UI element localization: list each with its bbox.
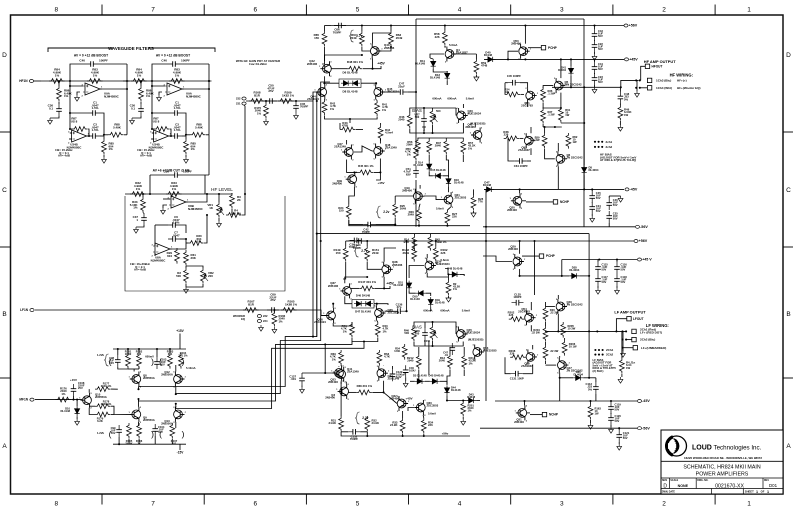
svg-text:226: 226: [452, 215, 457, 219]
capacitor C98: [117, 355, 119, 367]
svg-text:1%: 1%: [191, 147, 196, 151]
resistor R34h: [505, 92, 521, 97]
svg-text:LF AMP OUTPUT: LF AMP OUTPUT: [614, 309, 646, 314]
svg-text:D5 DL4148: D5 DL4148: [413, 374, 427, 378]
svg-text:50V: 50V: [623, 436, 628, 440]
svg-text:1: 1: [767, 490, 769, 494]
svg-text:(: (: [159, 357, 162, 367]
resistor R138: [356, 390, 372, 395]
svg-text:+56v: +56v: [442, 432, 449, 436]
resistor R56: [416, 138, 421, 154]
resistor R37: [541, 108, 546, 124]
terminal HFOUT: [641, 66, 645, 80]
svg-text:600mA: 600mA: [447, 97, 456, 101]
transistor Q55 driver: [525, 349, 538, 366]
wg2 wire R86: [140, 81, 142, 86]
svg-text:1: 1: [747, 501, 751, 508]
svg-text:50V: 50V: [615, 419, 620, 423]
svg-text:2SA1349: 2SA1349: [334, 145, 346, 149]
svg-text:DL4148: DL4148: [413, 163, 423, 167]
ground R166: [272, 327, 277, 333]
svg-text:10 3W: 10 3W: [568, 327, 576, 331]
transistor Q19: [413, 189, 426, 206]
+45V stub lf: [384, 286, 390, 288]
lf left vertical: [485, 189, 487, 401]
svg-text:2N5550A: 2N5550A: [143, 418, 155, 422]
svg-text:63V: 63V: [406, 172, 411, 176]
svg-text:DL4148: DL4148: [410, 297, 420, 301]
nc lf: [446, 298, 451, 302]
ground D10: [76, 416, 78, 419]
svg-text:2049: 2049: [408, 213, 415, 217]
svg-text:2040 1%: 2040 1%: [101, 384, 112, 388]
resistor R168: [249, 99, 265, 104]
resistor R207: [543, 345, 548, 361]
svg-text:2.7v: 2.7v: [361, 249, 367, 253]
svg-text:NCHP: NCHP: [560, 200, 569, 204]
wg1 ground opamp: [75, 95, 80, 101]
svg-text:100PF: 100PF: [513, 295, 522, 299]
hf-level input rail: [125, 193, 207, 195]
transistor Q8: [129, 372, 142, 389]
brace buffer top: [105, 354, 109, 366]
resistor R33h: [166, 192, 182, 197]
transistor Q35: [374, 306, 387, 323]
bias pot: [430, 109, 435, 125]
svg-text:2: 2: [662, 7, 666, 14]
wire diff tail: [325, 116, 378, 120]
resistor R142: [428, 235, 433, 251]
junction lf 2ch: [594, 349, 596, 351]
svg-text:500: 500: [436, 109, 441, 113]
svg-text:D4648: D4648: [467, 395, 475, 399]
svg-text:4.5m4: 4.5m4: [385, 131, 393, 135]
diode D48h: [450, 272, 460, 277]
svg-text:1%: 1%: [468, 409, 472, 413]
svg-text:DWN. DATE: DWN. DATE: [662, 491, 675, 494]
hf conn 2: [636, 80, 638, 87]
buffer top rail: [113, 348, 186, 350]
transistor Q9: [129, 407, 142, 424]
wire pots: [185, 266, 187, 268]
svg-text:NJM4580C: NJM4580C: [104, 94, 120, 98]
svg-text:700PF: 700PF: [350, 437, 359, 441]
resistor R27: [445, 210, 450, 226]
svg-text:D6 DL4148: D6 DL4148: [343, 71, 358, 75]
svg-text:1%: 1%: [55, 73, 60, 77]
diode D11: [431, 59, 436, 69]
resistor R176: [55, 397, 71, 402]
bus wire 1: [141, 92, 318, 387]
wg1 ground C36: [48, 118, 53, 124]
svg-text:-15V: -15V: [177, 451, 185, 455]
svg-text:HF1N: HF1N: [19, 79, 28, 83]
transistor Q12: [173, 372, 186, 389]
svg-text:1%: 1%: [332, 357, 337, 361]
caps C46 C25: [608, 198, 610, 210]
svg-text:(: (: [159, 429, 162, 439]
resistor R151: [365, 246, 370, 262]
capacitor C69: [267, 309, 279, 311]
diode DL4: [427, 162, 432, 172]
capacitor C104: [154, 424, 156, 436]
bus wire 2: [178, 82, 330, 394]
svg-text:+45V: +45V: [377, 62, 385, 66]
svg-text:5: 5: [356, 7, 360, 14]
resistor R202h: [509, 317, 525, 322]
svg-text:2N5406: 2N5406: [507, 208, 517, 212]
svg-text:1W: 1W: [626, 366, 631, 370]
svg-text:500: 500: [404, 331, 409, 335]
diode D55: [569, 273, 579, 278]
transistor Q48: [373, 144, 386, 161]
svg-text:R48 301 1%: R48 301 1%: [347, 60, 363, 64]
-56V rail LF: [480, 427, 637, 429]
svg-text:231: 231: [236, 102, 241, 106]
capacitor C134b: [350, 239, 362, 241]
svg-text:C131 100P: C131 100P: [510, 377, 524, 381]
op-amp U8A: [152, 243, 174, 258]
lf in terminal: [30, 309, 34, 312]
diode D16: [446, 176, 451, 186]
svg-text:5.49K: 5.49K: [113, 125, 122, 129]
ground hf zobel: [618, 125, 623, 131]
svg-text:US 8: US 8: [153, 119, 160, 123]
svg-text:D46 D4148: D46 D4148: [356, 294, 371, 298]
svg-text:222: 222: [263, 314, 268, 318]
svg-text:5.6mA: 5.6mA: [462, 309, 470, 313]
svg-text:1.2Vk: 1.2Vk: [97, 353, 104, 357]
transistor Q51 driver: [525, 88, 538, 105]
svg-text:B: B: [786, 311, 790, 318]
svg-text:D: D: [663, 483, 667, 489]
ground VR1: [217, 221, 222, 227]
svg-text:2SC3503: 2SC3503: [455, 196, 467, 200]
transistor Q43: [369, 44, 382, 61]
resistor R63: [389, 31, 394, 47]
svg-text:4785: 4785: [342, 124, 349, 128]
resistor R143: [412, 235, 417, 251]
svg-text:100 1%: 100 1%: [231, 211, 241, 215]
svg-text:50V: 50V: [621, 280, 626, 284]
svg-text:50V: 50V: [621, 268, 626, 272]
transistor Q30: [413, 400, 426, 417]
jumper 222: [257, 315, 261, 318]
svg-text:US 8: US 8: [71, 119, 78, 123]
resistor R147: [359, 286, 375, 291]
svg-text:C: C: [2, 187, 7, 194]
diode D47: [484, 187, 494, 192]
svg-text:MJE15034: MJE15034: [436, 262, 450, 266]
transistor Q54 driver: [524, 310, 537, 327]
wire lf vas top: [418, 347, 420, 354]
svg-text:50V: 50V: [598, 47, 603, 51]
diode D10: [75, 406, 80, 416]
svg-text:500: 500: [415, 115, 420, 119]
svg-text:1: 1: [756, 490, 758, 494]
svg-text:6.3V: 6.3V: [396, 375, 402, 379]
resistor R140: [375, 322, 380, 338]
svg-text:700PF: 700PF: [333, 30, 342, 34]
capacitor C135: [512, 302, 524, 304]
svg-text:-56V: -56V: [640, 225, 648, 229]
wire VR1: [218, 194, 220, 202]
resistor R32: [130, 192, 146, 197]
svg-text:6.2K: 6.2K: [97, 419, 103, 423]
resistor R104: [179, 353, 184, 369]
wg1 capacitor C36: [58, 104, 60, 116]
svg-text:600mA: 600mA: [432, 97, 441, 101]
wg2 capacitor C36: [140, 104, 142, 116]
wg1 wire input rail: [41, 80, 130, 82]
resistor R62: [566, 133, 571, 149]
wire vas bottom rail: [349, 220, 470, 226]
diode D49: [428, 297, 433, 307]
title block frame: [661, 430, 783, 494]
transistor Q34: [376, 366, 389, 383]
resistor R203: [543, 306, 548, 322]
LOUD Technologies logo: [667, 436, 687, 456]
lf vas bottom: [341, 432, 470, 436]
svg-text:B: B: [2, 311, 6, 318]
wg1 wire U34B in: [70, 132, 72, 134]
resistor R58: [443, 30, 448, 46]
lfin terminal2: [30, 398, 34, 401]
resistor R25: [393, 202, 398, 218]
transistor Q53: [472, 345, 485, 362]
diode D66: [573, 375, 583, 380]
lf caps C119 C120: [610, 402, 612, 414]
transistor Q32: [396, 396, 409, 413]
-45V rail LF: [495, 400, 637, 402]
wg2 resistor R84: [131, 79, 147, 84]
svg-text:4: 4: [458, 501, 462, 508]
wg1 node A: [69, 80, 71, 82]
wg1 wire opamp in: [70, 81, 83, 86]
resistor R43: [340, 127, 356, 132]
svg-text:R38 301 1%: R38 301 1%: [357, 384, 373, 388]
svg-text:50V: 50V: [613, 217, 618, 221]
svg-text:+45V: +45V: [405, 397, 413, 401]
brace 2.2v lf: [356, 412, 360, 424]
resistor R59: [474, 59, 479, 75]
svg-text:+45V: +45V: [629, 58, 638, 62]
svg-text:.1 2W: .1 2W: [548, 113, 555, 117]
wire R35: [231, 193, 233, 194]
resistor R47: [444, 139, 449, 155]
resistor R177: [95, 387, 111, 392]
lf bias wires: [414, 322, 456, 334]
svg-text:C40: C40: [161, 59, 167, 63]
diode pair D6 D8: [339, 79, 361, 88]
diode D40: [486, 57, 496, 62]
svg-text:): ): [151, 429, 154, 439]
wg1 op-amp U9A: [82, 83, 104, 98]
wire lf nfb: [478, 233, 589, 235]
svg-text:(MJE15035): (MJE15035): [468, 338, 483, 342]
svg-text:C40: C40: [79, 59, 85, 63]
wg2 op-amp U9A: [164, 83, 186, 98]
svg-text:2SA1837: 2SA1837: [521, 364, 533, 368]
capacitor C47: [396, 91, 408, 93]
wg1 wire right column: [126, 64, 128, 135]
transistor Q6 output: [555, 151, 568, 168]
svg-text:2040: 2040: [439, 359, 446, 363]
capacitor C42: [363, 224, 375, 226]
waveguide filters header bracket: [48, 48, 215, 52]
svg-text:DL4004: DL4004: [569, 268, 579, 272]
resistor R149: [343, 246, 348, 262]
ground C37: [134, 227, 139, 233]
svg-text:B1R: B1R: [248, 302, 255, 306]
svg-text:R45 301 1%: R45 301 1%: [358, 164, 374, 168]
wire hf-level out: [242, 106, 245, 215]
svg-text:1%: 1%: [64, 94, 69, 98]
svg-text:2SC3503: 2SC3503: [427, 404, 439, 408]
resistor R41: [375, 101, 380, 117]
svg-text:24.9K: 24.9K: [329, 421, 336, 425]
svg-text:1%: 1%: [330, 107, 335, 111]
transistor Q33: [331, 366, 344, 383]
transistor Q38: [381, 262, 394, 279]
svg-text:1Ch3 (Blu): 1Ch3 (Blu): [656, 79, 671, 83]
resistor R137: [461, 401, 466, 417]
svg-text:D: D: [2, 52, 7, 59]
svg-text:Fav=31.2kHz: Fav=31.2kHz: [249, 62, 267, 66]
lf conn 2: [622, 331, 624, 339]
brace 2.2v q: [377, 206, 381, 218]
transistor Q41v: [333, 367, 346, 384]
resistor R28: [471, 195, 476, 211]
svg-text:226: 226: [504, 133, 509, 137]
svg-text:16220 WOOD-RED ROAD NE . WOODI: 16220 WOOD-RED ROAD NE . WOODINVILLE, WA…: [684, 456, 762, 460]
svg-text:1: 1: [747, 7, 751, 14]
resistor R26: [417, 208, 422, 224]
ground R137: [461, 419, 466, 425]
svg-text:DWG. NO.: DWG. NO.: [697, 480, 708, 482]
ground R170: [264, 119, 269, 125]
capacitor C139: [392, 369, 394, 381]
wg1 capacitor C3: [88, 135, 100, 137]
svg-text:BIAS: BIAS: [412, 108, 422, 113]
svg-text:1%: 1%: [136, 187, 141, 191]
svg-text:.001: .001: [291, 377, 297, 381]
svg-text:25V: 25V: [268, 89, 273, 93]
hf zobel R49: [618, 105, 623, 121]
resistor R163: [377, 350, 382, 366]
svg-text:50V: 50V: [602, 280, 607, 284]
resistor R165: [281, 308, 297, 313]
svg-text:8: 8: [54, 501, 58, 508]
svg-text:C: C: [786, 187, 791, 194]
caps C44 C23: [594, 62, 596, 74]
wg1 resistor R88: [108, 132, 124, 137]
+56V rail LF: [349, 240, 634, 242]
bus stubs buffer: [139, 386, 142, 388]
resistor R167: [243, 308, 259, 313]
svg-text:WAVEGUIDE FILTERS: WAVEGUIDE FILTERS: [108, 46, 154, 51]
wire q43-r63: [379, 47, 391, 51]
svg-text:5.6mA: 5.6mA: [466, 97, 474, 101]
transistor Q40lf: [456, 327, 469, 344]
svg-text:150: 150: [339, 209, 344, 213]
svg-text:.22 3W: .22 3W: [531, 331, 540, 335]
transistor Q47: [341, 145, 354, 162]
svg-text:3: 3: [560, 501, 564, 508]
svg-text:1%: 1%: [146, 94, 151, 98]
transistor Q52 driver: [523, 133, 536, 150]
terminal NCHP: [526, 201, 553, 203]
resistor R30: [188, 241, 204, 246]
hf zobel C48: [619, 92, 621, 104]
svg-text:): ): [182, 357, 185, 367]
lf in line: [35, 309, 296, 311]
lf conn 1: [621, 330, 623, 332]
wg2 capacitor C3: [170, 135, 182, 137]
svg-text:1%: 1%: [279, 319, 284, 323]
capacitor C36: [170, 174, 182, 176]
svg-text:2: 2: [662, 501, 666, 508]
wg2 resistor R88: [190, 132, 206, 137]
lf cap C121: [618, 430, 620, 442]
transistor Q50 pchp: [518, 44, 531, 61]
svg-text:WN 2SC5242: WN 2SC5242: [565, 83, 583, 87]
wg2 resistor R87: [154, 127, 170, 132]
svg-text:1%: 1%: [133, 206, 138, 210]
svg-text:2940: 2940: [435, 144, 442, 148]
resistor R166: [272, 311, 277, 327]
svg-text:700PF: 700PF: [300, 105, 309, 109]
svg-text:1.5%: 1.5%: [173, 221, 180, 225]
svg-text:.1 2W: .1 2W: [548, 92, 555, 96]
svg-text:POWER AMPLIFIERS: POWER AMPLIFIERS: [696, 472, 749, 478]
svg-text:1%: 1%: [407, 152, 412, 156]
diode D43: [466, 398, 476, 403]
wg2 wire U34B in: [152, 132, 154, 134]
junction 2ch2: [594, 146, 596, 148]
svg-text:SHEET: SHEET: [745, 490, 754, 494]
resistor R46: [407, 113, 412, 129]
wg2 wire opamp in: [152, 81, 165, 86]
hf chain wire: [246, 100, 313, 102]
svg-text:6: 6: [253, 7, 257, 14]
svg-text:U/30: U/30: [394, 349, 400, 353]
svg-text:1%: 1%: [197, 240, 202, 244]
wg2 node A: [151, 80, 153, 82]
wg2 wire opamp out: [182, 88, 209, 90]
svg-text:600mA: 600mA: [423, 309, 432, 313]
wire U8B: [163, 198, 170, 200]
resistor R42: [322, 100, 327, 116]
svg-text:0.1: 0.1: [131, 106, 135, 110]
wire R30: [186, 242, 188, 244]
svg-text:DL4148: DL4148: [60, 409, 70, 413]
svg-text:3: 3: [560, 7, 564, 14]
svg-text:MF1N: MF1N: [19, 398, 28, 402]
capacitor Cb: [423, 114, 425, 126]
svg-text:DL4148: DL4148: [454, 181, 464, 185]
svg-text:-45V: -45V: [630, 188, 638, 192]
svg-text:MJE15034: MJE15034: [468, 112, 482, 116]
svg-text:NJM4580C: NJM4580C: [186, 94, 202, 98]
capacitor C50: [265, 100, 277, 102]
svg-text:6: 6: [253, 501, 257, 508]
svg-text:7: 7: [151, 7, 155, 14]
svg-text:.0047: .0047: [172, 233, 180, 237]
resistor R39: [542, 133, 547, 149]
wg1 resistor R83: [87, 79, 103, 84]
svg-text:(: (: [109, 429, 112, 439]
